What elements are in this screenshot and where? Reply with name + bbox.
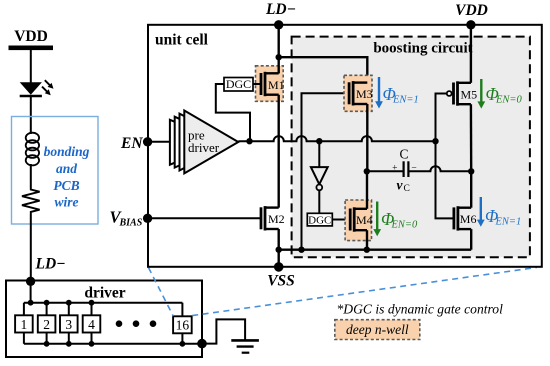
transistor M3 channel bar [352,81,355,105]
wire M1 source to M2 drain [278,95,280,208]
driver cell 4 box [83,315,101,332]
transistor M6 gate bar [452,207,455,229]
transistor M5 channel bar [456,81,459,105]
svg-text:EN=1: EN=1 [392,95,419,106]
svg-text:VDD: VDD [14,28,48,45]
wire LD- into driver top bus [30,281,32,302]
deep n-well box around M1 [256,66,284,102]
wire LD- top to M1 drain node [278,25,280,57]
wire DGC2 to M4 gate [332,219,350,221]
wire M4 source to VSS rail [366,230,368,250]
driver cell 3 riser bottom [68,333,70,344]
transistor M5 gate bubble [447,91,452,96]
boosting circuit box [292,37,530,258]
capacitor C left plate [403,161,405,177]
svg-text:wire: wire [54,195,78,210]
resistor R1 (PCB wire) [22,189,40,214]
transistor M2 gate bar [260,207,263,229]
transistor M6 source lead [458,228,471,230]
wire inverter output to DGC2 [318,190,320,213]
svg-text:4: 4 [88,317,95,332]
driver block box [6,281,202,358]
driver cell 16 riser bottom [181,333,183,344]
svg-text:M2: M2 [268,212,285,226]
svg-text:2: 2 [43,317,50,332]
legend deep n-well box [335,320,420,340]
svg-text:M3: M3 [356,87,373,101]
ellipsis dots between cells [116,320,123,327]
driver cell 16 box [173,316,192,333]
power VDD (top) junction [466,20,475,29]
LED D1 triangle [20,82,42,95]
driver cell 2 riser bottom [46,333,48,344]
driver cell 16 riser top [181,303,183,317]
wire VBIAS to M2 gate [148,217,261,219]
transistor M5 gate bar [452,83,455,105]
svg-text:VSS: VSS [267,273,295,290]
wire M6 source to VSS rail [470,229,472,250]
driver cell 3 riser top [68,303,70,316]
pre driver stack outline 3 [170,120,224,165]
svg-text:unit cell: unit cell [155,32,209,49]
deep n-well box around M3 [344,75,372,111]
svg-text:deep n-well: deep n-well [346,322,409,337]
svg-text:BIAS: BIAS [119,218,143,229]
wire M2 source down [278,229,280,250]
junction node line to M5/M6 gates [432,138,438,144]
driver cell 1 riser bottom [23,333,25,344]
transistor M3 gate bar [348,82,351,104]
junction M3 gate line on VSS rail [298,247,304,253]
wire M1 drain [278,57,280,73]
wire M6 drain to cap right node [470,171,472,207]
driver cell 4 riser top [91,303,93,316]
svg-text:M6: M6 [460,212,477,226]
transistor M3 drain lead [353,81,367,83]
transistor M2 source lead [265,228,279,230]
junction M4 source on VSS rail [364,247,370,253]
wire pre-driver output node line with hops [238,136,435,141]
junction cell 2 top [44,300,50,306]
dashed zoom connector right [192,267,537,315]
svg-text:LD−: LD− [265,1,296,18]
junction M3 source / M4 drain / cap left [364,168,370,174]
svg-text:EN=1: EN=1 [495,217,522,228]
pre driver U1 triangle [184,111,238,174]
inverter U2 triangle [311,167,328,184]
junction cell 16 bottom [180,341,186,347]
transistor M5 source lead [458,103,471,105]
svg-text:driver: driver [84,285,125,302]
node LD- (left) junction [26,277,35,286]
svg-text:VDD: VDD [455,2,488,19]
transistor M1 channel bar [264,72,267,96]
transistor M4 source lead [354,229,367,231]
arrow phi EN=1 at M6 [480,197,482,221]
junction M2 source / VSS rail [276,247,282,253]
junction driver output node [197,339,207,349]
driver top bus [24,302,183,304]
LED D1 emission arrow 1 [45,80,50,85]
pre driver stack outline 2 [175,117,229,168]
dashed zoom connector left [149,268,174,316]
svg-text:boosting circuit: boosting circuit [373,41,472,57]
pre driver stack outline 1 [180,114,234,171]
deep n-well box around M4 [345,200,371,241]
wire DGC1 to M1 gate [253,83,261,85]
wire VDD to M5 drain [470,25,472,83]
svg-text:EN=0: EN=0 [391,220,419,231]
DGC block 2 box [307,213,332,226]
power rail VDD (left) bar [9,46,54,51]
junction cell 3 bottom [66,341,72,347]
transistor M2 drain lead [265,206,279,208]
transistor M4 drain lead [354,208,367,210]
ground symbol [231,339,259,342]
unit cell box [148,25,542,267]
junction LD- internal node [276,54,282,60]
svg-text:v: v [397,178,404,193]
svg-text:C: C [399,147,408,162]
svg-text:16: 16 [176,318,190,333]
transistor M4 gate bar [349,209,352,231]
bonding and PCB wire box [12,117,99,225]
svg-text:and: and [56,161,77,176]
transistor M2 channel bar [264,206,267,230]
arrow phi EN=0 at M4 [376,202,378,231]
wire resistor to LD- node [30,214,32,282]
driver cell 2 box [38,315,56,332]
wire M5 source to cap right node [470,104,473,171]
svg-text:PCB: PCB [53,178,79,193]
capacitor C right plate [407,161,409,177]
svg-text:DGC: DGC [308,214,331,226]
transistor M6 drain lead [458,206,471,208]
svg-text:EN: EN [120,135,143,152]
junction LD- on top bus [28,300,34,306]
svg-text:*DGC is dynamic gate control: *DGC is dynamic gate control [337,302,504,317]
arrow phi EN=0 at M5 [480,79,482,103]
junction cell 4 top [89,300,95,306]
svg-text:1: 1 [21,317,28,332]
wire cap left [367,170,403,172]
svg-text:M1: M1 [268,78,285,92]
wire cap right with hop over gate line [410,166,472,171]
junction pre-driver output to DGC1 [246,138,252,144]
svg-text:+: + [392,164,397,174]
wire M3 source to cap node [366,104,368,171]
node LD- (top) junction [274,20,283,29]
svg-text:LD−: LD− [35,256,66,273]
driver cell 3 box [60,315,78,332]
wire driver to ground [202,319,245,343]
node EN junction [143,137,152,146]
inverter U2 bubble [316,185,322,191]
node VSS junction [274,262,284,272]
inductor L1 (bond wire) [26,133,39,166]
wire VSS rail to VSS node [278,250,280,267]
svg-text:EN=0: EN=0 [495,95,523,106]
junction cell 3 top [66,300,72,306]
transistor M5 drain lead [458,82,471,84]
svg-text:M5: M5 [461,87,478,101]
arrow phi EN=1 at M3 [378,77,380,103]
wire M4 drain to cap node [366,171,368,209]
svg-text:C: C [404,184,410,194]
transistor M3 source lead [353,103,367,105]
transistor M1 source lead [265,93,279,95]
svg-text:bonding: bonding [44,144,90,159]
wire EN to pre driver [148,141,178,143]
svg-text:DGC: DGC [226,77,251,91]
driver cell 1 riser top [23,303,25,316]
transistor M1 drain lead [265,72,279,74]
svg-text:driver: driver [188,140,220,155]
wire M3 gate to VSS rail [302,93,350,249]
transistor M4 channel bar [353,207,356,231]
wire LD- rail to M3 drain [279,57,368,75]
LED D1 cathode bar [20,95,42,98]
driver cell 2 riser top [46,303,48,316]
driver cell 4 riser bottom [91,333,93,344]
wire internal VSS rail [279,248,472,250]
driver bottom bus [24,343,202,345]
junction node line to inverter [316,138,322,144]
driver cell 1 box [15,315,33,332]
svg-text:M4: M4 [356,213,373,227]
junction cell 4 bottom [89,341,95,347]
junction cap right / M5 source / M6 drain [468,168,474,174]
wire LED cathode to inductor [30,96,32,134]
transistor M6 channel bar [456,206,459,230]
junction cell 2 bottom [44,341,50,347]
wire VDD bar to LED anode [30,50,32,83]
transistor M1 gate bar [260,73,263,95]
node VBIAS junction [143,214,152,223]
LED D1 emission arrow 2 [42,87,47,92]
wire DGC1 input from pre-driver output [216,84,250,140]
wire node line to inverter input [318,141,320,167]
wire inductor to resistor [30,164,32,189]
wire M5/M6 gate line [436,94,454,219]
svg-text:3: 3 [65,317,72,332]
DGC block 1 box [224,78,253,92]
